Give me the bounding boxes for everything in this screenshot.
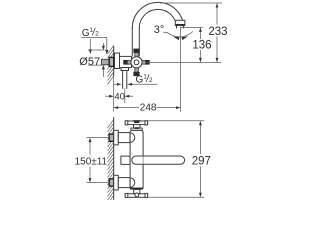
spout outlet tube — [176, 20, 178, 27]
top union: dome boss in body — [130, 133, 135, 142]
valve body tube — [120, 56, 132, 67]
spout (plan view) — [132, 156, 185, 164]
spout outer arc — [132, 2, 183, 28]
aerator — [175, 20, 185, 25]
small arrow from left pointing right at pipe — [114, 83, 118, 85]
G1/2 leader arrow (left drop) — [89, 39, 91, 50]
wall line (top view) — [113, 46, 115, 75]
ext lines 297 — [148, 120, 204, 122]
outlet centre extension line — [124, 88, 126, 103]
spout inner arc — [139, 9, 176, 28]
left arm — [127, 61, 132, 65]
dim 40 — [105, 95, 109, 97]
svg-text:150±11: 150±11 — [75, 157, 108, 168]
bottom union: dome boss in body — [130, 178, 135, 187]
outlet pipe down — [122, 71, 124, 89]
dia57 ext line bottom — [88, 64, 105, 66]
dim 248 — [114, 107, 140, 109]
diverter square left of body — [121, 156, 130, 164]
supply pipe stub (grey) — [102, 59, 110, 64]
svg-text:G: G — [136, 75, 144, 86]
top arm — [135, 52, 139, 57]
right arm — [142, 61, 147, 65]
top union: stub — [109, 134, 114, 141]
top union: flange — [114, 130, 119, 145]
wall face extension line down — [113, 76, 115, 112]
bottom handle bar — [125, 194, 147, 198]
union nipple (dark) — [109, 57, 114, 66]
svg-text:248: 248 — [140, 103, 157, 114]
hub inner circle — [134, 60, 139, 65]
bottom union: flange — [114, 175, 119, 190]
ext line top of outlet (y27.4) — [181, 26, 203, 28]
svg-text:2: 2 — [95, 30, 99, 37]
top union: pipe — [118, 133, 130, 143]
ext line top of spout (y3) — [160, 2, 222, 4]
G1/2 underline — [82, 36, 107, 38]
bottom union: stub — [109, 179, 114, 186]
svg-text:2: 2 — [149, 77, 153, 84]
spout outlet extension line down — [180, 27, 182, 112]
top handle bar — [125, 121, 147, 125]
ext lines 150+-11 — [86, 137, 110, 139]
G1/2 leader arrow (right drop) — [106, 37, 108, 50]
hub top — [134, 121, 141, 128]
centre line of valve — [147, 61, 221, 63]
svg-text:40: 40 — [114, 92, 125, 103]
wall hatch (bottom view) — [108, 119, 114, 204]
spout riser pipe — [131, 28, 133, 57]
dim 136 — [199, 32, 201, 40]
svg-text:297: 297 — [192, 156, 211, 168]
wall hatch (top view) — [108, 45, 114, 84]
bottom hub circle — [135, 193, 139, 197]
dim 297 — [199, 125, 201, 154]
dia57 top arrow — [102, 43, 104, 46]
dim 233 — [216, 7, 218, 24]
body edge crossing spout — [142, 156, 144, 164]
handle hub circle — [131, 57, 142, 68]
leader line with arrow pointing left at pipe — [128, 83, 158, 85]
svg-text:233: 233 — [208, 26, 227, 38]
dia57 ext line top — [88, 49, 105, 51]
dim 150+-11 — [89, 142, 91, 155]
svg-text:3°: 3° — [154, 24, 165, 36]
dia57 bottom arrow — [102, 69, 104, 77]
hub bottom — [134, 190, 140, 195]
body column — [130, 130, 143, 188]
wall line (bottom view) — [113, 118, 115, 200]
escutcheon (side view) — [115, 53, 120, 69]
shower outlet nipple below valve — [121, 68, 129, 71]
svg-text:Ø57: Ø57 — [79, 56, 100, 68]
swivel arc with arrows — [163, 32, 193, 37]
bonnet ring top — [131, 128, 142, 131]
svg-text:136: 136 — [192, 40, 211, 52]
body bottom dark band — [130, 188, 143, 190]
bottom arm — [135, 67, 139, 72]
bottom union: pipe — [118, 178, 130, 188]
